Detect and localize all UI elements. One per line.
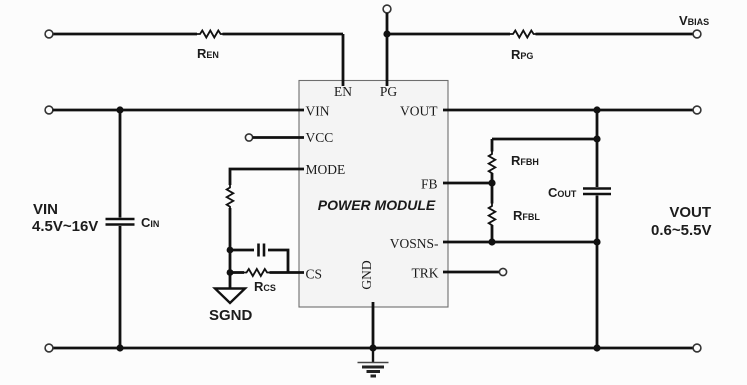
svg-text:RPG: RPG: [511, 47, 533, 62]
ground SGND triangle: [215, 289, 245, 304]
terminal bottom-left: [45, 344, 53, 352]
svg-text:PG: PG: [380, 84, 398, 99]
svg-text:VOSNS-: VOSNS-: [390, 236, 439, 251]
wire: MODE leg lower: [229, 208, 232, 288]
junction VOSNS/RFBL: [488, 238, 495, 245]
power module body U1: [299, 81, 448, 308]
resistor RFBL: [489, 204, 496, 228]
terminal VOUT right: [693, 106, 701, 114]
svg-text:0.6~5.5V: 0.6~5.5V: [651, 222, 711, 239]
wire: CS left segment: [230, 271, 244, 274]
svg-text:RCS: RCS: [254, 279, 276, 294]
terminal PG top: [383, 5, 391, 13]
wire: PG vertical: [386, 13, 389, 86]
wire: CIN upper leg: [119, 110, 122, 218]
svg-text:GND: GND: [359, 260, 374, 289]
wire: FB node vertical: [491, 173, 494, 204]
resistor RCS: [244, 269, 269, 276]
svg-text:VIN: VIN: [306, 104, 330, 119]
terminal bottom-right: [693, 344, 701, 352]
svg-text:POWER MODULE: POWER MODULE: [318, 197, 436, 213]
junction top link/COUT: [593, 135, 600, 142]
junction CS left: [227, 269, 234, 276]
resistor RFBH: [489, 152, 496, 176]
junction VIN/CIN: [116, 106, 123, 113]
svg-text:VOUT: VOUT: [669, 204, 711, 221]
wire: EN vertical drop to EN pin: [342, 34, 345, 86]
wire: feedback top link: [492, 138, 597, 141]
junction cap branch left: [227, 247, 234, 254]
svg-text:VCC: VCC: [306, 130, 334, 145]
junction rail/CIN: [116, 344, 123, 351]
svg-text:EN: EN: [334, 84, 352, 99]
wire: RFBH upper stub: [491, 139, 494, 152]
junction FB: [488, 179, 495, 186]
wire: snubber cap branch: [230, 249, 254, 252]
svg-text:VIN: VIN: [33, 201, 58, 218]
svg-text:FB: FB: [421, 177, 438, 192]
wire: COUT lower leg: [596, 196, 599, 349]
svg-text:REN: REN: [197, 46, 219, 61]
wire: FB pin link: [443, 182, 492, 185]
wire: VOUT rail: [443, 109, 693, 112]
terminal VBIAS: [693, 30, 701, 38]
wire: RFBL lower stub: [491, 225, 494, 242]
wire: COUT upper leg: [596, 110, 599, 187]
svg-text:VOUT: VOUT: [400, 104, 438, 119]
wire: bottom ground rail: [53, 347, 694, 350]
svg-text:TRK: TRK: [412, 266, 439, 281]
wire: VOSNS- link: [443, 241, 597, 244]
svg-text:4.5V~16V: 4.5V~16V: [32, 218, 98, 235]
wire: top-left terminal to EN resistor net: [53, 33, 344, 36]
wire: TRK: [443, 271, 499, 274]
svg-text:SGND: SGND: [209, 307, 253, 324]
terminal VIN left: [45, 106, 53, 114]
svg-text:VBIAS: VBIAS: [679, 13, 709, 28]
wire: VCC: [253, 136, 305, 139]
resistor REN: [197, 31, 223, 38]
terminal VCC: [245, 134, 252, 141]
wire: cap branch right side: [268, 250, 288, 273]
svg-text:COUT: COUT: [548, 185, 577, 200]
wire: MODE to divider: [230, 169, 304, 185]
resistor on MODE leg: [227, 185, 234, 209]
svg-text:CS: CS: [306, 267, 323, 282]
capacitor CIN: [106, 219, 135, 225]
capacitor COUT: [583, 189, 611, 195]
wire: CS right segment to pin: [270, 271, 305, 274]
junction VOUT/COUT: [593, 106, 600, 113]
ground earth symbol: [358, 348, 389, 376]
junction PG node: [383, 30, 390, 37]
wire: GND pin drop: [372, 302, 375, 348]
svg-text:RFBH: RFBH: [511, 153, 539, 168]
junction rail/COUT: [593, 344, 600, 351]
resistor RPG: [510, 31, 536, 38]
capacitor on CS branch: [259, 244, 265, 257]
svg-text:RFBL: RFBL: [513, 208, 540, 223]
terminal TRK: [499, 268, 506, 275]
wire: PG node to RPG: [387, 33, 693, 36]
svg-text:CIN: CIN: [141, 215, 159, 230]
svg-text:MODE: MODE: [306, 162, 346, 177]
junction VOSNS/COUT: [593, 238, 600, 245]
wire: VIN rail: [53, 109, 305, 112]
junction rail/GND: [369, 344, 376, 351]
terminal top-left: [45, 30, 53, 38]
wire: CIN lower leg: [119, 226, 122, 348]
